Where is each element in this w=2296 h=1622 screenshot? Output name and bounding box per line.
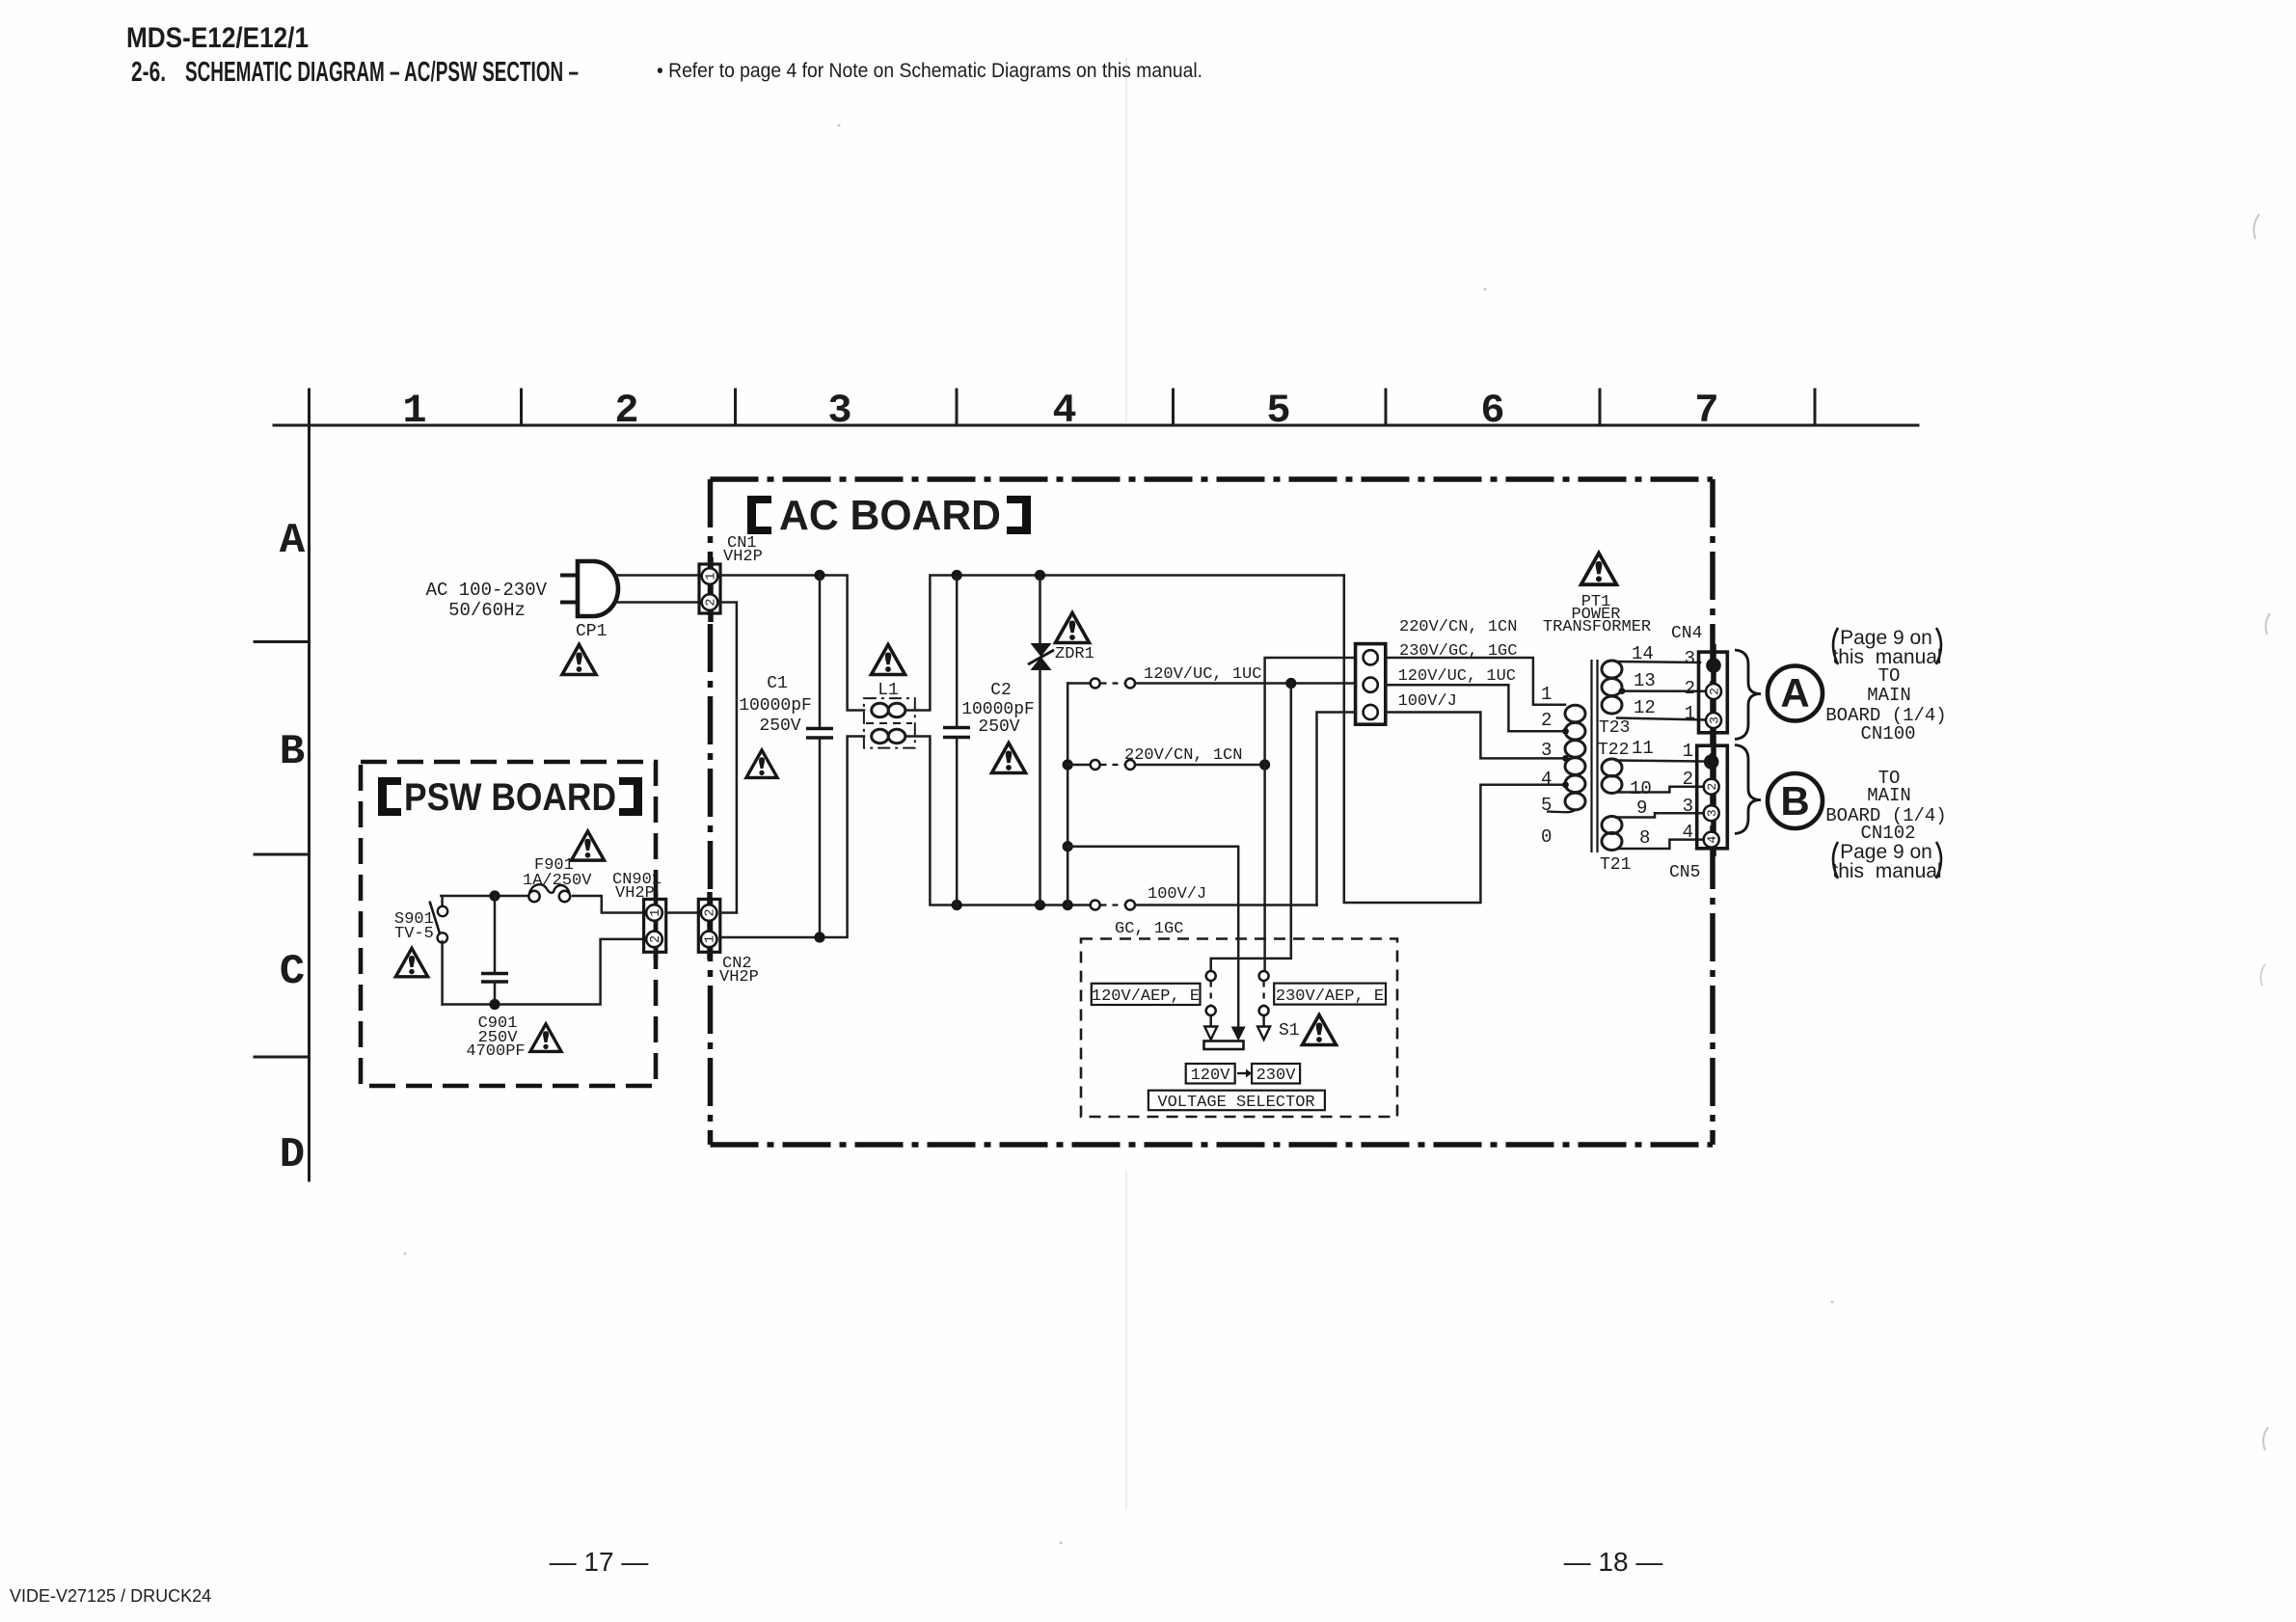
- svg-text:1: 1: [402, 388, 426, 434]
- svg-text:TO: TO: [1878, 665, 1901, 687]
- voltage selector dashed box: [1081, 939, 1397, 1118]
- transformer PT1 primary winding: [1565, 705, 1585, 810]
- svg-text:0: 0: [1541, 826, 1552, 848]
- svg-text:PSW BOARD: PSW BOARD: [404, 776, 616, 819]
- svg-text:AC BOARD: AC BOARD: [779, 492, 1001, 539]
- svg-text:MAIN: MAIN: [1867, 785, 1911, 806]
- grid column numbers 1-7: [402, 388, 1718, 434]
- note page 9 top: [1832, 627, 1941, 668]
- warning CP1: [562, 645, 596, 675]
- svg-text:10000pF: 10000pF: [961, 700, 1035, 719]
- svg-text:A: A: [280, 517, 306, 565]
- warning C2: [992, 743, 1026, 773]
- warning PT1: [1581, 554, 1617, 585]
- junction ZDR1 bottom: [1035, 900, 1045, 910]
- PSW board border solid at CN901: [654, 892, 659, 960]
- node 120V/UC select line: [1067, 679, 1355, 689]
- CN5 pin number labels: [1683, 741, 1693, 843]
- svg-text:• Refer to page 4 for Note on: • Refer to page 4 for Note on Schematic …: [657, 59, 1202, 82]
- svg-text:2: 2: [1683, 769, 1693, 790]
- plug CP1: [578, 561, 618, 616]
- wire L1 upper out to top rail: [905, 576, 1344, 711]
- transformer core: [1590, 660, 1592, 852]
- wire pin8 to CN5: [1618, 840, 1703, 849]
- scan artifacts: [404, 58, 2271, 1545]
- junction bus 220V line: [1063, 759, 1073, 770]
- primary pin labels: [1541, 684, 1552, 848]
- tap13 dot: [1619, 688, 1626, 694]
- secondary T23 winding: [1602, 661, 1622, 714]
- svg-text:S1: S1: [1279, 1021, 1300, 1041]
- primary tap4 dot: [1562, 781, 1569, 788]
- wire 220V/230V riser to hole1: [1265, 658, 1356, 976]
- wire CN1 pin2 down to CN2: [720, 603, 737, 913]
- secondary T21 winding: [1602, 817, 1622, 851]
- svg-text:4: 4: [1683, 822, 1693, 843]
- varistor ZDR1: [1028, 576, 1054, 906]
- svg-text:C2: C2: [990, 681, 1012, 700]
- svg-text:D: D: [280, 1131, 305, 1179]
- svg-text:3: 3: [827, 388, 851, 434]
- brace A: [1735, 650, 1761, 740]
- svg-text:GC, 1GC: GC, 1GC: [1115, 920, 1183, 938]
- label 120V/AEP E: [1092, 984, 1201, 1006]
- svg-text:2: 2: [649, 935, 663, 943]
- wire CN2 pin2 stub: [720, 911, 737, 914]
- junction selector bus bottom: [1063, 900, 1073, 910]
- AC board border solid at CN1: [708, 557, 714, 622]
- wire pin10 to CN5: [1618, 787, 1703, 793]
- grid ruler vertical line: [308, 425, 311, 1180]
- AC board border solid at CN4 CN5: [1711, 644, 1716, 856]
- svg-text:MAIN: MAIN: [1867, 685, 1911, 706]
- svg-text:1: 1: [705, 572, 719, 580]
- PSW BOARD title: [378, 776, 642, 819]
- warning S901: [395, 948, 427, 976]
- svg-text:C1: C1: [767, 674, 788, 693]
- label 230V/AEP E: [1274, 984, 1386, 1006]
- junction C901 top: [489, 890, 500, 901]
- svg-text:3: 3: [1685, 648, 1695, 669]
- connector voltage taps 3-hole: [1356, 644, 1386, 725]
- svg-text:120V/AEP, E: 120V/AEP, E: [1092, 987, 1200, 1006]
- selector movable bar: [1204, 1041, 1244, 1050]
- capacitor C1: [806, 576, 833, 938]
- svg-text:CN4: CN4: [1671, 624, 1702, 643]
- svg-text:3: 3: [1541, 740, 1552, 761]
- svg-text:1: 1: [1685, 703, 1695, 724]
- svg-text:2: 2: [614, 388, 638, 434]
- svg-text:250V: 250V: [759, 716, 800, 736]
- svg-text:VH2P: VH2P: [719, 968, 759, 987]
- note page 9 bottom: [1832, 841, 1941, 882]
- svg-text:this manual: this manual: [1832, 860, 1941, 882]
- svg-text:5: 5: [1266, 388, 1290, 434]
- CN4 pin number labels: [1685, 648, 1695, 724]
- junction 120V riser: [1285, 678, 1296, 689]
- AC board border solid at CN2: [707, 892, 713, 960]
- wire pin9 to CN5: [1616, 813, 1703, 817]
- connector CN1: [699, 564, 720, 613]
- fuse F901: [528, 884, 570, 902]
- svg-text:8: 8: [1639, 827, 1650, 849]
- svg-text:TRANSFORMER: TRANSFORMER: [1543, 618, 1651, 636]
- svg-text:A: A: [1780, 670, 1809, 716]
- note to main board CN100: [1825, 665, 1946, 744]
- wire CN1 pin1 to L1: [720, 576, 864, 711]
- junction bus arrow feed: [1063, 841, 1073, 852]
- svg-text:1A/250V: 1A/250V: [523, 872, 592, 890]
- connector CN2: [698, 899, 720, 952]
- svg-text:1: 1: [649, 908, 663, 916]
- junction 220V riser: [1259, 759, 1270, 770]
- svg-text:100V/J: 100V/J: [1398, 692, 1457, 711]
- wire hole2 to primary tap2: [1386, 685, 1565, 731]
- svg-text:— 18 —: — 18 —: [1564, 1547, 1663, 1577]
- junction ZDR1 top: [1035, 570, 1045, 581]
- svg-text:4: 4: [1705, 836, 1719, 844]
- wire pin11 to CN5: [1616, 761, 1703, 762]
- svg-text:4: 4: [1541, 769, 1552, 790]
- svg-text:7: 7: [1694, 388, 1718, 434]
- wire pin12 to CN4: [1617, 718, 1706, 720]
- svg-text:50/60Hz: 50/60Hz: [448, 600, 526, 621]
- svg-text:L1: L1: [878, 681, 899, 700]
- svg-text:T21: T21: [1600, 855, 1631, 875]
- svg-text:VH2P: VH2P: [615, 884, 655, 903]
- svg-text:230V: 230V: [1256, 1067, 1297, 1085]
- warning F901: [572, 831, 605, 860]
- svg-text:2-6.: 2-6.: [131, 57, 166, 88]
- grid row ticks: [255, 642, 310, 1058]
- wire 100V riser to hole3: [1317, 713, 1356, 906]
- wire hole3 to primary tap3: [1386, 713, 1565, 759]
- svg-text:120V/UC, 1UC: 120V/UC, 1UC: [1398, 667, 1516, 686]
- wire bottom rail CN2 to L1: [720, 737, 864, 938]
- primary pin5 stub: [1547, 810, 1576, 812]
- svg-text:— 17 —: — 17 —: [550, 1547, 649, 1577]
- capacitor C901: [481, 896, 508, 1005]
- svg-text:B: B: [1780, 778, 1809, 824]
- grid ruler horizontal line: [274, 424, 1918, 427]
- wire CN901 to CN2: [666, 911, 699, 914]
- wire 120V riser to selector: [1211, 684, 1291, 972]
- svg-text:2: 2: [1685, 678, 1695, 699]
- svg-text:9: 9: [1636, 797, 1647, 819]
- wire CP1 to CN1 pin2: [615, 601, 699, 604]
- junction C1 bottom: [814, 932, 824, 942]
- switch S901: [430, 896, 448, 1005]
- svg-text:1: 1: [1683, 741, 1693, 762]
- svg-text:250V: 250V: [978, 717, 1019, 737]
- wire L1 lower out to bottom rail: [905, 737, 1091, 906]
- selector contact 120V side: [1204, 971, 1217, 1040]
- node B circle: [1768, 773, 1823, 828]
- selector bus vertical: [1067, 684, 1069, 906]
- svg-text:100V/J: 100V/J: [1148, 885, 1206, 904]
- PSW BOARD border box: [361, 762, 656, 1086]
- AC BOARD title: [747, 492, 1031, 539]
- svg-text:10000pF: 10000pF: [739, 696, 812, 716]
- choke L1: [864, 698, 915, 748]
- note to main board CN102: [1825, 768, 1946, 844]
- svg-text:T23: T23: [1599, 718, 1630, 738]
- svg-text:2: 2: [1705, 783, 1719, 791]
- svg-text:13: 13: [1634, 670, 1656, 691]
- svg-text:AC 100-230V: AC 100-230V: [426, 580, 548, 601]
- selector common black arrow: [1231, 1027, 1246, 1041]
- svg-text:14: 14: [1632, 643, 1654, 664]
- svg-text:3: 3: [1683, 796, 1693, 817]
- svg-text:1: 1: [1541, 684, 1552, 705]
- svg-text:120V/UC, 1UC: 120V/UC, 1UC: [1144, 665, 1261, 684]
- svg-text:10: 10: [1630, 778, 1652, 799]
- svg-text:2: 2: [1708, 688, 1722, 695]
- wire L return to primary tap4: [1344, 576, 1565, 904]
- svg-text:11: 11: [1632, 738, 1654, 759]
- AC BOARD border box: [711, 479, 1714, 1145]
- label 120V to 230V: [1186, 1064, 1300, 1085]
- secondary T22 winding: [1602, 759, 1622, 794]
- selector contact 230V side: [1257, 971, 1270, 1040]
- junction C901 bottom: [489, 999, 500, 1010]
- svg-text:120V: 120V: [1191, 1067, 1231, 1085]
- connector CN901: [644, 899, 666, 952]
- svg-text:CP1: CP1: [576, 622, 607, 641]
- primary tap3 dot: [1562, 755, 1569, 762]
- wire PSW bottom return: [443, 939, 644, 1005]
- capacitor C2: [943, 576, 970, 906]
- junction C2 bottom: [952, 900, 962, 910]
- svg-text:B: B: [280, 728, 305, 776]
- wire hole1 to primary pin1: [1386, 658, 1565, 705]
- wire S901 to F901: [441, 895, 529, 898]
- warning C901: [530, 1024, 561, 1052]
- svg-text:C: C: [280, 948, 305, 996]
- svg-text:3: 3: [1705, 809, 1719, 817]
- brace B: [1735, 745, 1761, 834]
- svg-text:6: 6: [1480, 388, 1504, 434]
- svg-text:CN100: CN100: [1860, 723, 1915, 744]
- grid ruler ticks: [310, 390, 1816, 425]
- svg-text:4700PF: 4700PF: [466, 1042, 525, 1061]
- svg-text:CN5: CN5: [1669, 863, 1700, 882]
- warning S1: [1303, 1015, 1337, 1045]
- wire arrow feed: [1067, 847, 1238, 1027]
- wire pin13 to CN4: [1622, 689, 1706, 692]
- svg-text:230V/AEP, E: 230V/AEP, E: [1276, 987, 1384, 1006]
- svg-text:VIDE-V27125 / DRUCK24: VIDE-V27125 / DRUCK24: [10, 1586, 211, 1606]
- svg-text:VH2P: VH2P: [723, 548, 763, 566]
- wire CP1 to CN1 pin1: [617, 574, 699, 577]
- svg-text:T22: T22: [1598, 741, 1629, 760]
- svg-text:TV-5: TV-5: [394, 925, 434, 943]
- svg-text:220V/CN, 1CN: 220V/CN, 1CN: [1124, 746, 1242, 765]
- junction C2 top: [952, 570, 962, 581]
- junction C1 top: [814, 570, 824, 581]
- node 100V/J select contacts: [1091, 901, 1317, 910]
- grid row letters A-D: [280, 517, 306, 1179]
- svg-text:MDS-E12/E12/1: MDS-E12/E12/1: [126, 22, 309, 54]
- svg-text:ZDR1: ZDR1: [1055, 645, 1094, 663]
- warning ZDR1: [1056, 613, 1090, 643]
- svg-text:SCHEMATIC DIAGRAM – AC/PSW SEC: SCHEMATIC DIAGRAM – AC/PSW SECTION –: [185, 57, 579, 88]
- wire pin14 to CN4: [1616, 662, 1700, 662]
- svg-text:12: 12: [1634, 697, 1656, 718]
- label VOLTAGE SELECTOR: [1148, 1091, 1325, 1112]
- node 220V/CN select line: [1067, 760, 1264, 770]
- connector CN4: [1699, 652, 1728, 733]
- svg-text:1: 1: [704, 935, 718, 943]
- svg-text:2: 2: [1541, 710, 1552, 731]
- warning L1: [872, 645, 905, 675]
- svg-text:2: 2: [705, 598, 719, 606]
- svg-text:3: 3: [1708, 716, 1722, 724]
- svg-text:5: 5: [1541, 795, 1552, 816]
- primary tap2 dot: [1562, 728, 1569, 735]
- svg-text:2: 2: [704, 908, 718, 916]
- warning C1: [746, 750, 777, 778]
- svg-text:4: 4: [1052, 388, 1076, 434]
- connector CN5: [1697, 745, 1728, 849]
- wire F901 to CN901 pin1: [573, 896, 644, 913]
- node A circle: [1768, 666, 1823, 721]
- svg-text:VOLTAGE SELECTOR: VOLTAGE SELECTOR: [1157, 1094, 1314, 1112]
- svg-text:220V/CN, 1CN: 220V/CN, 1CN: [1399, 618, 1517, 636]
